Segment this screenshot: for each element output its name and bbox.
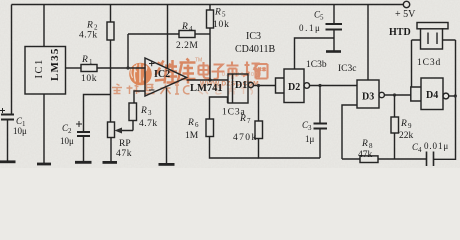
- node D1 output junction: [257, 84, 260, 87]
- watermark big char wei: [155, 60, 178, 84]
- resistor R5: [207, 10, 214, 28]
- wire D4 output to HTD right: [449, 95, 456, 97]
- watermark slogan row faint tail: [199, 85, 254, 95]
- wire R6 top connection to D1 input corner: [210, 97, 228, 119]
- wire HTD left drop to D4 input: [411, 40, 413, 87]
- wire C5 drop from rail: [333, 5, 335, 24]
- wire top +5V rail: [12, 4, 404, 6]
- gate D2 output bubble: [304, 83, 310, 89]
- capacitor C5: [326, 24, 343, 51]
- op-amp plus sign: [149, 61, 155, 66]
- wire R4 left: [128, 33, 179, 35]
- wire HTD right drop: [455, 40, 457, 96]
- wire R7 to bottom net: [259, 139, 321, 159]
- ground under IC1: [37, 163, 51, 166]
- wire D2 output to D3: [310, 85, 357, 87]
- wire left frame rail: [11, 5, 13, 115]
- wire D1 output to D2: [253, 85, 275, 87]
- wire RP to ground: [110, 138, 112, 162]
- watermark slogan row: [112, 84, 190, 94]
- wire R6 bottom to net: [210, 137, 259, 159]
- wire R5 drop from rail: [209, 5, 211, 11]
- capacitor C1: [0, 108, 14, 161]
- gate D4 box: [421, 78, 443, 110]
- resistor R2: [107, 22, 114, 40]
- +5V terminal: [403, 1, 409, 7]
- resistor R3: [129, 103, 137, 121]
- ground under C1: [0, 160, 16, 163]
- capacitor C2: [76, 121, 90, 161]
- resistor R8: [360, 156, 378, 163]
- wire IC1 ground: [43, 94, 45, 163]
- watermark char zi: [212, 65, 225, 79]
- ground under C5: [326, 50, 341, 53]
- wire junction down to R7: [258, 86, 260, 122]
- wire R3 to inverting input: [134, 91, 145, 103]
- wire op-amp ground pin: [166, 88, 168, 164]
- wire D3 output to D4: [384, 94, 410, 96]
- ground under op-amp: [159, 163, 175, 166]
- wire R9 to bottom net: [394, 133, 396, 159]
- wire R1 to op-amp non-inverting input: [97, 67, 145, 69]
- capacitor C3: [314, 124, 328, 159]
- wire R2 drop from rail: [110, 5, 112, 23]
- resistor R1: [81, 65, 97, 72]
- resistor R4: [179, 31, 195, 38]
- wire IC1 Vcc drop: [43, 5, 45, 47]
- gate D2 box: [284, 69, 304, 103]
- resistor R7: [255, 121, 263, 139]
- node D4 output junction: [454, 94, 457, 97]
- wire D3 power drop from rail: [367, 5, 369, 81]
- gate D3 box: [357, 80, 379, 108]
- wire bottom net R8/C4: [342, 96, 456, 159]
- watermark big char ku: [178, 59, 196, 84]
- gate D1 output bubble: [248, 82, 253, 87]
- sensor IC1 LM35: [25, 47, 66, 95]
- potentiometer RP: [108, 122, 115, 138]
- wire op-amp power drop from rail: [167, 5, 169, 69]
- resistor R6: [206, 119, 214, 137]
- node R5/output junction: [208, 78, 211, 81]
- wire R5 to output node: [209, 28, 211, 80]
- wire down to C3: [319, 86, 321, 123]
- wire R4 feedback drop to + input: [127, 34, 129, 68]
- gate D1 inner input bar: [232, 74, 234, 103]
- wire junction down to R9: [394, 95, 396, 117]
- wire R4 right to R5 line: [195, 33, 210, 35]
- ground under C2: [75, 161, 92, 164]
- buzzer HTD piezo: [412, 23, 456, 50]
- RP wiper arrow: [115, 121, 134, 134]
- watermark char shi: [227, 62, 239, 80]
- resistor R9: [391, 117, 399, 133]
- ground under RP: [103, 161, 118, 164]
- watermark char dian: [199, 62, 211, 78]
- gate D4 output bubble: [443, 93, 449, 99]
- gate D3 output bubble: [379, 92, 384, 97]
- capacitor C4: [427, 152, 434, 167]
- gate D2 input bracket: [276, 78, 285, 93]
- node D3 output junction: [393, 93, 396, 96]
- op-amp minus sign: [149, 89, 155, 91]
- wire D2 VSS pin to C5 ground: [295, 38, 335, 69]
- gate D4 input bracket: [411, 87, 421, 101]
- wire op-amp output to D1: [187, 79, 229, 81]
- wire C2 branch: [84, 95, 111, 133]
- op-amp U-IC2 triangle: [145, 58, 187, 96]
- watermark char chang: [243, 62, 260, 79]
- wire IC1 output to R1: [66, 67, 82, 69]
- node C3 junction: [318, 84, 321, 87]
- watermark char wang: [256, 64, 268, 79]
- watermark logo circle: [129, 63, 152, 86]
- gate D1 box: [228, 74, 248, 103]
- node R4/+input junction: [126, 66, 129, 69]
- wire D3 second input feedback: [342, 105, 357, 159]
- wire R2 to RP: [110, 40, 112, 122]
